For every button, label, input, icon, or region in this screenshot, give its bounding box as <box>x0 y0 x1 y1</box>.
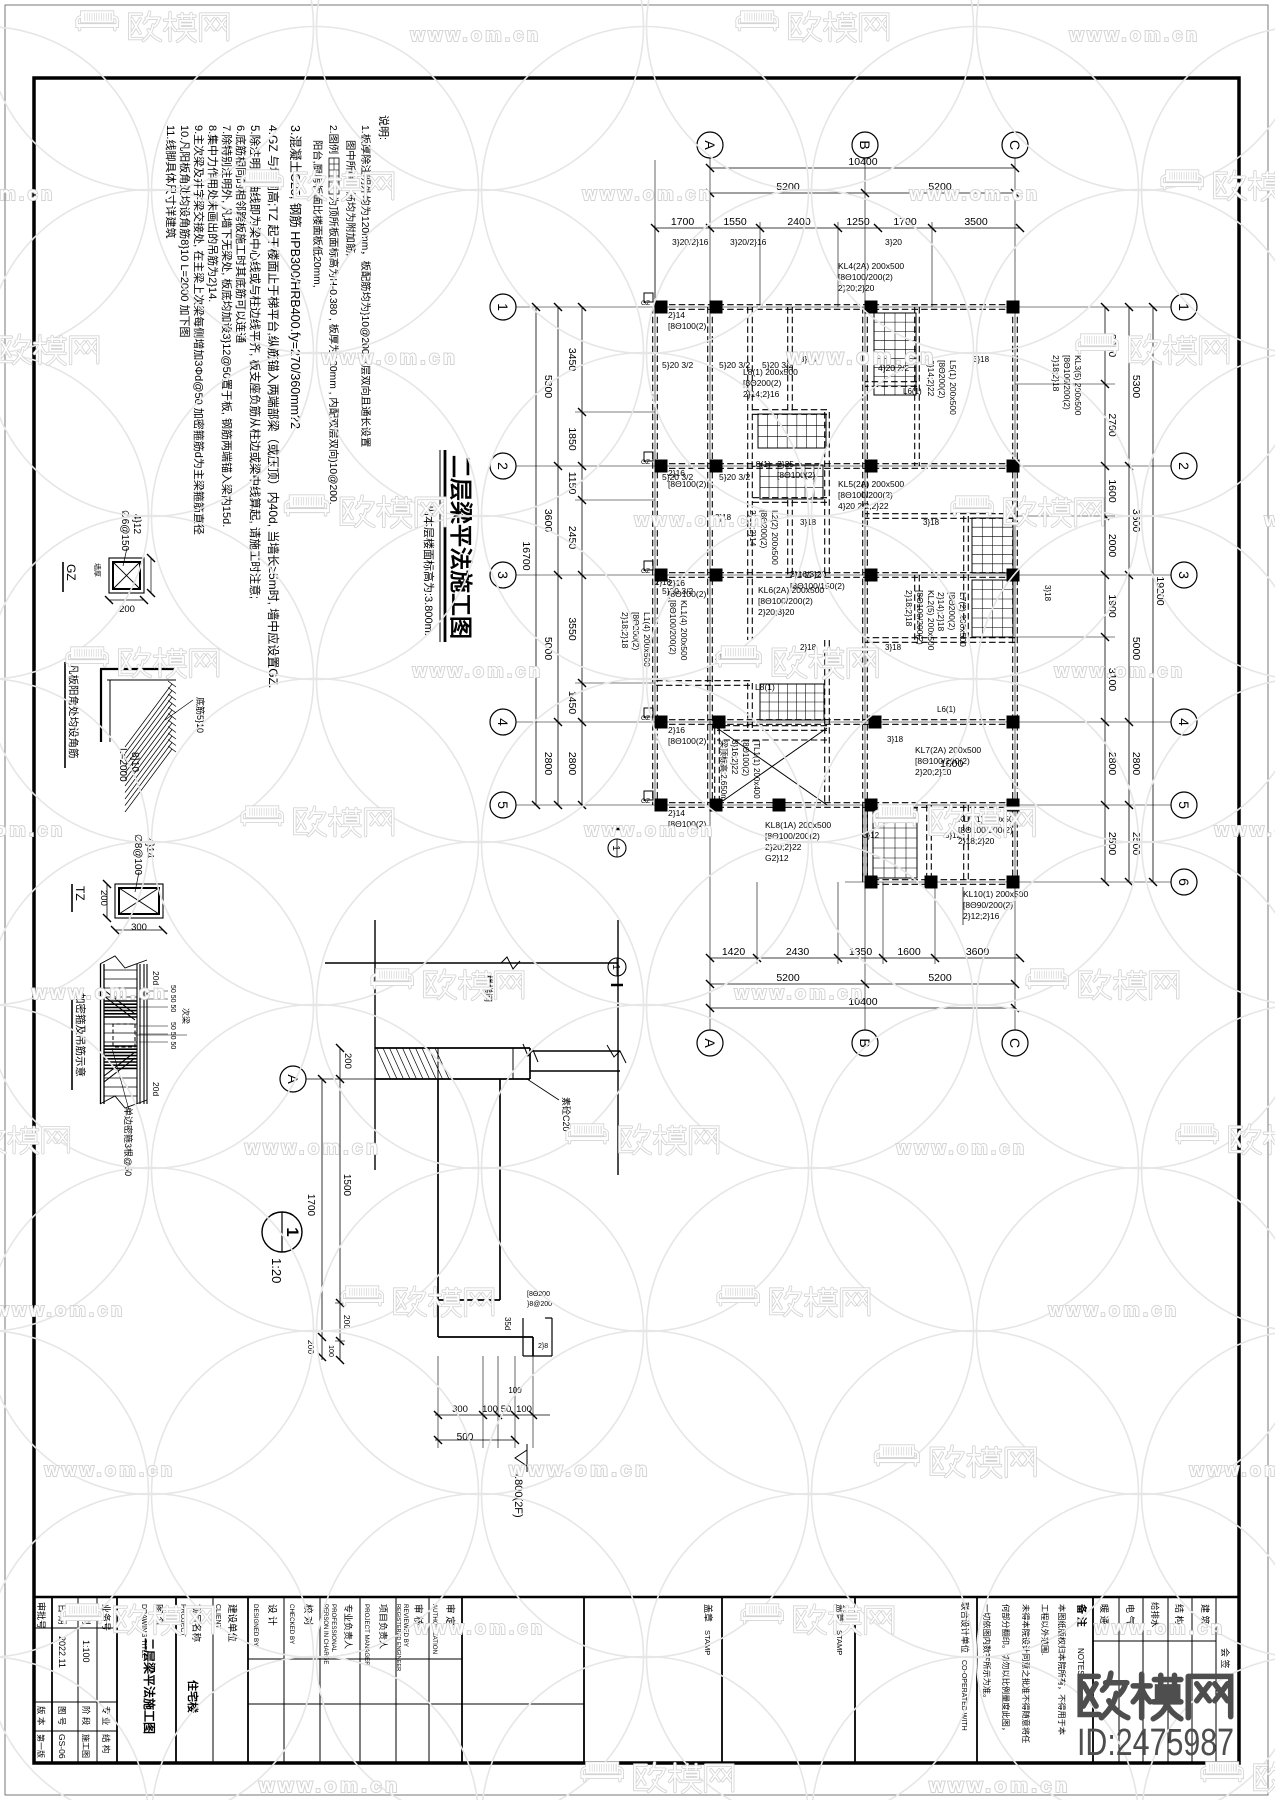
svg-text:www.om.cn: www.om.cn <box>1264 509 1275 530</box>
svg-text:www.om.cn: www.om.cn <box>410 24 542 45</box>
svg-text:www.om.cn: www.om.cn <box>734 982 866 1003</box>
svg-text:www.om.cn: www.om.cn <box>1054 660 1186 681</box>
svg-text:www.om.cn: www.om.cn <box>0 819 65 840</box>
svg-text:www.om.cn: www.om.cn <box>584 819 716 840</box>
svg-text:www.om.cn: www.om.cn <box>412 660 544 681</box>
svg-text:www.om.cn: www.om.cn <box>0 1299 125 1320</box>
svg-text:www.om.cn: www.om.cn <box>1189 1459 1275 1480</box>
svg-text:www.om.cn: www.om.cn <box>244 1138 381 1159</box>
svg-text:www.om.cn: www.om.cn <box>909 183 1041 204</box>
svg-text:www.om.cn: www.om.cn <box>321 348 458 369</box>
svg-text:www.om.cn: www.om.cn <box>0 183 55 204</box>
svg-text:www.om.cn: www.om.cn <box>414 1617 546 1638</box>
svg-text:ID:2475987: ID:2475987 <box>1077 1722 1234 1764</box>
svg-text:www.om.cn: www.om.cn <box>44 1459 176 1480</box>
svg-text:www.om.cn: www.om.cn <box>1069 24 1201 45</box>
svg-text:www.om.cn: www.om.cn <box>634 509 766 530</box>
svg-text:www.om.cn: www.om.cn <box>896 1137 1028 1158</box>
svg-text:www.om.cn: www.om.cn <box>258 1775 401 1797</box>
svg-text:www.om.cn: www.om.cn <box>1214 819 1275 840</box>
svg-text:www.om.cn: www.om.cn <box>582 183 714 204</box>
svg-text:www.om.cn: www.om.cn <box>1094 1617 1226 1638</box>
svg-text:www.om.cn: www.om.cn <box>1048 1299 1180 1320</box>
svg-text:www.om.cn: www.om.cn <box>31 983 168 1004</box>
svg-text:www.om.cn: www.om.cn <box>508 1459 651 1481</box>
svg-text:www.om.cn: www.om.cn <box>786 346 937 369</box>
svg-text:www.om.cn: www.om.cn <box>928 1775 1071 1797</box>
